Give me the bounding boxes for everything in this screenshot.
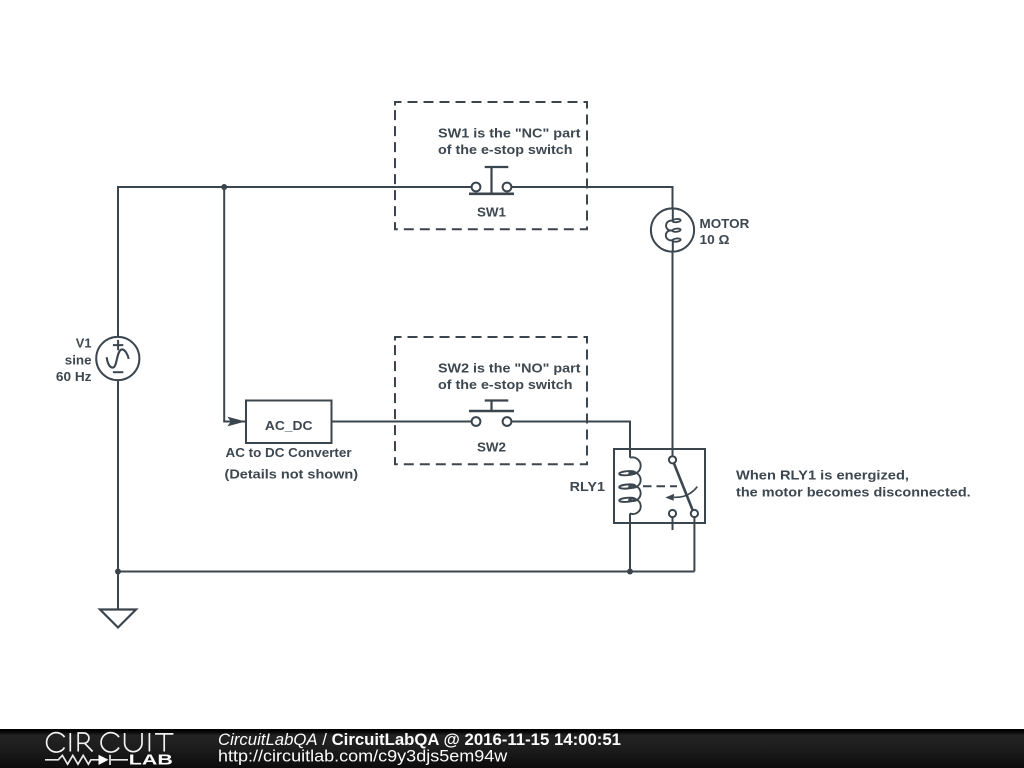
label MOTOR value: [700, 216, 750, 247]
svg-text:the motor becomes disconnected: the motor becomes disconnected.: [736, 485, 971, 500]
label V1 value: [56, 336, 92, 385]
wire SW2 to relay coil: [512, 422, 631, 450]
svg-text:AC_DC: AC_DC: [265, 418, 313, 433]
node junction bottom-left: [115, 569, 121, 575]
wire top rail: [118, 187, 673, 337]
node junction relay bottom: [627, 569, 633, 575]
footer credits: [218, 731, 621, 765]
wire bottom rail: [118, 571, 694, 573]
svg-text:of the e-stop switch: of the e-stop switch: [438, 377, 573, 392]
svg-text:CircuitLabQA / CircuitLabQA @: CircuitLabQA / CircuitLabQA @ 2016-11-15…: [218, 731, 621, 749]
svg-text:RLY1: RLY1: [570, 479, 605, 494]
switch SW2: [395, 337, 587, 464]
svg-text:LAB: LAB: [129, 753, 173, 768]
label relay note: [736, 468, 971, 500]
svg-text:SW2: SW2: [477, 439, 506, 454]
svg-text:SW1 is the "NC" part: SW1 is the "NC" part: [438, 126, 581, 141]
wire relay contact to bottom rail: [693, 517, 695, 571]
wire converter to SW2: [332, 421, 472, 423]
label SW2 annotation: [438, 361, 581, 455]
arrowhead relay: [665, 494, 674, 501]
arrow into converter: [227, 417, 245, 427]
ground: [100, 610, 136, 628]
svg-text:60 Hz: 60 Hz: [56, 369, 92, 384]
svg-text:SW2 is the "NO" part: SW2 is the "NO" part: [438, 361, 581, 376]
label AC_DC: [225, 418, 359, 482]
svg-text:When RLY1 is energized,: When RLY1 is energized,: [736, 468, 909, 483]
label SW1 annotation: [438, 126, 581, 220]
converter AC_DC: [246, 401, 332, 444]
svg-text:SW1: SW1: [477, 204, 506, 219]
svg-text:10 Ω: 10 Ω: [700, 232, 730, 247]
svg-text:sine: sine: [65, 353, 92, 368]
svg-text:(Details not shown): (Details not shown): [225, 467, 359, 482]
wire relay coil to bottom rail: [629, 523, 631, 572]
svg-text:of the e-stop switch: of the e-stop switch: [438, 142, 573, 157]
logo resistor-diode: [45, 755, 128, 765]
wire V1 bottom to ground: [117, 380, 119, 610]
motor M1: [651, 208, 694, 456]
svg-text:AC to DC Converter: AC to DC Converter: [226, 445, 352, 460]
svg-text:http://circuitlab.com/c9y3djs5: http://circuitlab.com/c9y3djs5em94w: [218, 748, 507, 766]
voltage source V1: [96, 337, 139, 380]
logo CIRCUIT: [47, 733, 174, 752]
svg-text:V1: V1: [76, 336, 92, 351]
wire mid branch: [224, 187, 246, 422]
relay RLY1: [614, 449, 705, 530]
svg-text:MOTOR: MOTOR: [700, 216, 750, 231]
label RLY1: [570, 479, 605, 494]
footer bar: [0, 729, 1024, 768]
logo LAB: [129, 753, 173, 768]
switch SW1: [395, 102, 587, 229]
logo diode triangle: [99, 755, 109, 765]
node junction top: [221, 184, 227, 190]
